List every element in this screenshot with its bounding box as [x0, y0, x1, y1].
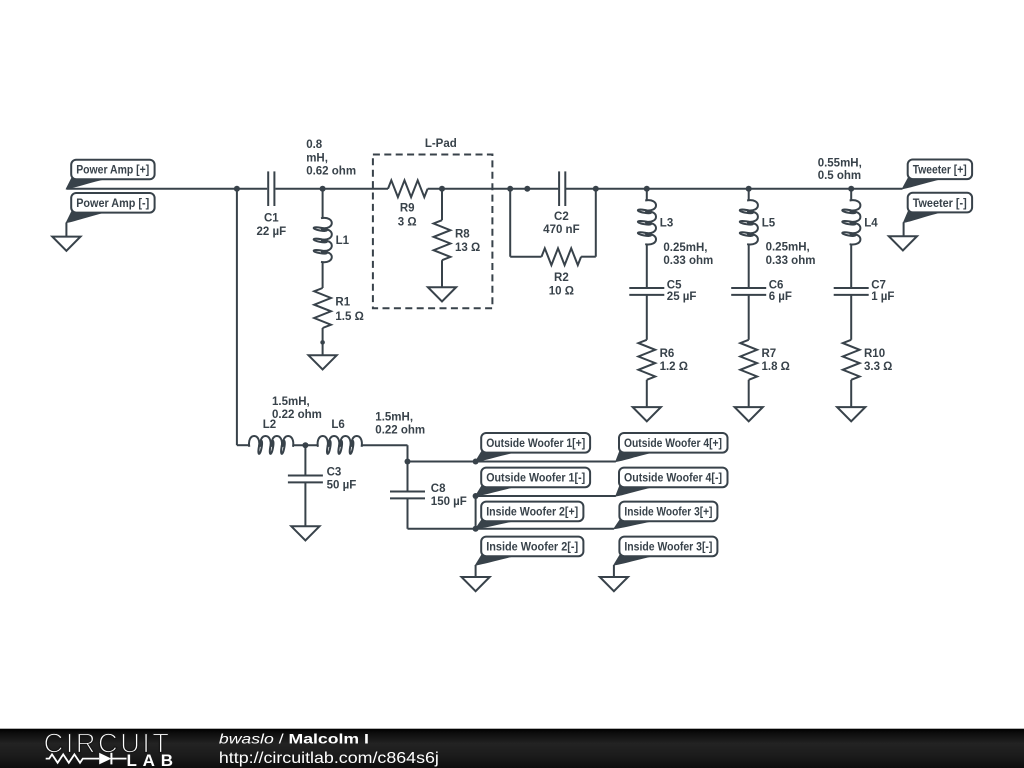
wire from C6 to R7: [748, 295, 750, 340]
inductor L2: [249, 436, 293, 454]
flag Outside Woofer 4[-]: [616, 468, 728, 496]
R6 value label: [660, 348, 688, 373]
L5 label: [762, 217, 776, 229]
svg-text:R9: R9: [400, 203, 415, 215]
svg-text:R6: R6: [660, 348, 675, 360]
wire R2 branch right vertical: [595, 189, 597, 257]
wire from L4 to C7: [850, 245, 852, 288]
node junction at outside woofer bus corner: [405, 459, 411, 465]
wire connecting outside woofer [-] bus to inside woofer [+] bus: [475, 496, 477, 529]
L2 value label: [272, 396, 322, 421]
svg-text:0.55mH,: 0.55mH,: [818, 158, 862, 170]
svg-text:Tweeter [-]: Tweeter [-]: [913, 198, 967, 210]
flag Outside Woofer 4[+]: [616, 433, 728, 462]
svg-text:R8: R8: [455, 228, 470, 240]
node junction at R2 branch right (596,189): [593, 186, 599, 192]
resistor R6: [638, 340, 655, 380]
wire main net segment from R9 to C2: [428, 188, 559, 190]
svg-text:6 µF: 6 µF: [769, 291, 792, 303]
wire from main net down to L1: [322, 189, 324, 218]
svg-text:Inside Woofer 2[+]: Inside Woofer 2[+]: [486, 507, 578, 519]
svg-text:L5: L5: [762, 217, 776, 229]
svg-text:C2: C2: [554, 211, 569, 223]
wire main net segment from C1 to R9: [275, 188, 388, 190]
C3 value label: [327, 466, 357, 491]
svg-text:0.8: 0.8: [306, 139, 323, 151]
svg-text:1.5mH,: 1.5mH,: [272, 396, 310, 408]
svg-text:3 Ω: 3 Ω: [398, 216, 417, 228]
node junction at woofer branch (237,189): [234, 186, 240, 192]
flag Outside Woofer 1[-]: [476, 468, 591, 496]
wire inside woofer [+] bus: [408, 528, 614, 530]
svg-text:Outside Woofer 1[-]: Outside Woofer 1[-]: [486, 473, 585, 485]
node junction wire joint (527,189): [524, 186, 530, 192]
svg-text:C8: C8: [431, 483, 446, 495]
svg-text:R7: R7: [762, 348, 777, 360]
svg-text:Inside Woofer 3[+]: Inside Woofer 3[+]: [624, 507, 712, 519]
wire from R7 to ground: [748, 380, 750, 407]
wire from L2 to L6: [294, 444, 317, 446]
svg-text:3.3 Ω: 3.3 Ω: [864, 361, 892, 373]
C5 value label: [667, 280, 697, 303]
svg-text:1 µF: 1 µF: [871, 291, 894, 303]
flag Tweeter [-]: [904, 193, 973, 223]
ground symbol below R7: [735, 407, 763, 421]
wire from C5 to R6: [646, 295, 648, 340]
svg-text:22 µF: 22 µF: [256, 226, 286, 238]
resistor R8: [434, 220, 451, 260]
logo LAB wordmark: [127, 751, 174, 768]
wire main net segment from C2 to Tweeter [+]: [566, 188, 903, 190]
svg-text:R10: R10: [864, 348, 885, 360]
node junction at C3 branch (305,445): [302, 442, 308, 448]
svg-text:1.5 Ω: 1.5 Ω: [335, 311, 363, 323]
node junction at L5 branch (749,189): [746, 186, 752, 192]
R2 value label: [549, 272, 574, 298]
wire from L6 to corner: [362, 444, 407, 446]
flag Inside Woofer 2[+]: [476, 502, 584, 529]
L3 label: [660, 217, 673, 229]
node junction at Outside Woofer 1[+] tap: [473, 459, 479, 465]
ground symbol below R10: [837, 407, 865, 421]
L4 label: [864, 217, 878, 229]
wire from L3 to C5: [646, 245, 648, 288]
L1 value label: [306, 139, 356, 177]
wire from R10 to ground: [850, 380, 852, 407]
svg-text:C6: C6: [769, 280, 784, 292]
node junction at L3 branch (647,189): [644, 186, 650, 192]
wire from woofer bus down to C8: [407, 462, 409, 492]
flag Outside Woofer 1[+]: [476, 433, 591, 462]
wire from junction down to C3: [304, 445, 306, 475]
R7 value label: [762, 348, 790, 373]
wire main net segment from Power Amp [+] to C1: [66, 188, 267, 190]
node junction at L1 branch (323,189): [320, 186, 326, 192]
ground symbol below R8: [428, 287, 456, 301]
svg-text:0.22 ohm: 0.22 ohm: [272, 409, 322, 421]
wire Power Amp [-] ground stem: [65, 223, 67, 237]
logo CIRCUIT wordmark: [44, 727, 173, 758]
flag Inside Woofer 3[+]: [614, 502, 718, 529]
svg-text:Inside Woofer 2[-]: Inside Woofer 2[-]: [486, 542, 578, 554]
node junction at R8 top (442,189): [439, 186, 445, 192]
L2 label: [263, 419, 276, 431]
node junction at Inside Woofer 2[+] tap: [473, 526, 479, 532]
resistor R7: [740, 340, 757, 380]
svg-text:Outside Woofer 1[+]: Outside Woofer 1[+]: [486, 438, 585, 450]
L4 value label: [818, 158, 862, 182]
svg-text:0.5 ohm: 0.5 ohm: [818, 170, 861, 182]
node junction at Outside Woofer 1[-] tap: [473, 493, 479, 499]
inductor L3: [638, 200, 656, 244]
R10 value label: [864, 348, 892, 373]
wire from L1 to R1: [322, 263, 324, 288]
node junction at R2 branch left (510,189): [507, 186, 513, 192]
svg-text:150 µF: 150 µF: [431, 496, 467, 508]
wire from branch corner to L2: [237, 444, 249, 446]
wire outside woofer [-] bus: [476, 495, 616, 497]
ground symbol below Tweeter [-]: [889, 236, 917, 250]
capacitor C2: [559, 171, 565, 206]
logo resistor-diode squiggle: [46, 753, 127, 765]
ground symbol below R1: [309, 355, 337, 369]
C1 value label: [256, 212, 286, 238]
L5 value label: [766, 242, 816, 267]
node junction at L4 branch (851,189): [848, 186, 854, 192]
svg-text:L3: L3: [660, 217, 673, 229]
capacitor C5: [629, 288, 664, 295]
svg-text:13 Ω: 13 Ω: [455, 242, 480, 254]
svg-text:1.5mH,: 1.5mH,: [375, 411, 413, 423]
wire from main net down to L3: [646, 189, 648, 200]
wire from L5 to C6: [748, 245, 750, 288]
C7 value label: [871, 280, 894, 303]
R8 value label: [455, 228, 480, 254]
inductor L1: [313, 218, 331, 262]
svg-text:Power Amp [+]: Power Amp [+]: [76, 165, 149, 177]
capacitor C7: [834, 288, 869, 295]
svg-text:Outside Woofer 4[+]: Outside Woofer 4[+]: [624, 438, 722, 450]
wire Tweeter [-] ground stem: [903, 222, 905, 236]
inductor L6: [318, 436, 362, 454]
C8 value label: [431, 483, 467, 508]
svg-text:25 µF: 25 µF: [667, 291, 697, 303]
R9 value label: [398, 203, 417, 229]
svg-text:R2: R2: [554, 272, 569, 284]
svg-text:1.8 Ω: 1.8 Ω: [762, 361, 790, 373]
svg-text:Outside Woofer 4[-]: Outside Woofer 4[-]: [624, 473, 722, 485]
node small junction above R1 ground: [320, 340, 325, 345]
wire from main net down to L4: [850, 189, 852, 200]
wire from main net down to L2 branch: [236, 189, 238, 446]
resistor R9: [388, 180, 428, 197]
footer author/title text: [219, 732, 369, 747]
wire R2 branch left horizontal: [510, 256, 541, 258]
wire from R6 to ground: [646, 380, 648, 407]
wire R2 branch left vertical: [509, 189, 511, 257]
flag Power Amp [-]: [66, 193, 154, 223]
flag Inside Woofer 2[-]: [476, 537, 584, 565]
resistor R10: [843, 340, 860, 380]
svg-text:LAB: LAB: [127, 751, 174, 768]
capacitor C8: [390, 491, 425, 498]
wire Inside Woofer 2[-] ground stem: [475, 565, 477, 577]
wire from C3 to ground: [304, 482, 306, 526]
svg-text:10 Ω: 10 Ω: [549, 285, 574, 297]
svg-text:mH,: mH,: [306, 152, 328, 164]
svg-text:Power Amp [-]: Power Amp [-]: [76, 198, 149, 210]
wire from main net down to L5: [748, 189, 750, 200]
ground symbol below C3: [291, 526, 319, 540]
svg-text:C3: C3: [327, 466, 342, 478]
svg-text:Inside Woofer 3[-]: Inside Woofer 3[-]: [624, 542, 712, 554]
wire from C8 down to inside woofer bus: [407, 498, 409, 528]
R1 value label: [335, 296, 363, 322]
footer black bar: [0, 729, 1024, 768]
wire Inside Woofer 3[-] ground stem: [613, 565, 615, 577]
capacitor C6: [731, 288, 766, 295]
wire corner down to woofer bus: [407, 445, 409, 461]
L6 value label: [375, 411, 425, 436]
svg-text:C5: C5: [667, 280, 682, 292]
svg-text:Tweeter [+]: Tweeter [+]: [913, 165, 967, 177]
C2 value label: [543, 211, 579, 236]
resistor R2: [542, 248, 582, 265]
ground symbol below Inside Woofer 3[-]: [600, 577, 628, 591]
svg-text:L6: L6: [331, 419, 344, 431]
svg-text:bwaslo / Malcolm I: bwaslo / Malcolm I: [219, 732, 369, 747]
flag Tweeter [+]: [902, 160, 972, 189]
C6 value label: [769, 280, 792, 303]
svg-text:L-Pad: L-Pad: [425, 138, 457, 150]
svg-text:L1: L1: [336, 235, 350, 247]
wire R2 branch right horizontal: [581, 256, 596, 258]
wire from R9 output down to R8: [441, 189, 443, 221]
svg-text:0.62 ohm: 0.62 ohm: [306, 166, 356, 178]
flag Power Amp [+]: [66, 160, 154, 189]
ground symbol below Power Amp [-]: [52, 237, 80, 251]
svg-text:0.33 ohm: 0.33 ohm: [766, 255, 816, 267]
svg-text:R1: R1: [335, 296, 350, 308]
svg-text:0.33 ohm: 0.33 ohm: [663, 255, 713, 267]
ground symbol below R6: [633, 407, 661, 421]
svg-text:50 µF: 50 µF: [327, 480, 357, 492]
svg-text:L4: L4: [864, 217, 878, 229]
L-Pad enclosure dashed box: [373, 155, 493, 309]
svg-text:0.25mH,: 0.25mH,: [663, 242, 707, 254]
footer url text: [219, 750, 439, 767]
L-Pad title label: [425, 138, 457, 150]
svg-text:C7: C7: [871, 280, 886, 292]
resistor R1: [314, 288, 331, 328]
wire from C7 to R10: [850, 295, 852, 340]
svg-text:C1: C1: [264, 212, 279, 224]
svg-text:0.25mH,: 0.25mH,: [766, 242, 810, 254]
wire outside woofer [+] bus: [408, 461, 616, 463]
wire from R1 to ground: [322, 328, 324, 355]
ground symbol below Inside Woofer 2[-]: [462, 577, 490, 591]
inductor L4: [842, 200, 860, 244]
capacitor C3: [288, 475, 323, 482]
wire from R8 to ground: [441, 260, 443, 287]
svg-text:http://circuitlab.com/c864s6j: http://circuitlab.com/c864s6j: [219, 750, 439, 767]
L6 label: [331, 419, 344, 431]
svg-text:0.22 ohm: 0.22 ohm: [375, 425, 425, 437]
svg-text:470 nF: 470 nF: [543, 224, 579, 236]
capacitor C1: [268, 171, 274, 206]
svg-text:1.2 Ω: 1.2 Ω: [660, 361, 688, 373]
flag Inside Woofer 3[-]: [614, 537, 718, 565]
L3 value label: [663, 242, 713, 267]
inductor L5: [740, 200, 758, 244]
L1 label: [336, 235, 350, 247]
